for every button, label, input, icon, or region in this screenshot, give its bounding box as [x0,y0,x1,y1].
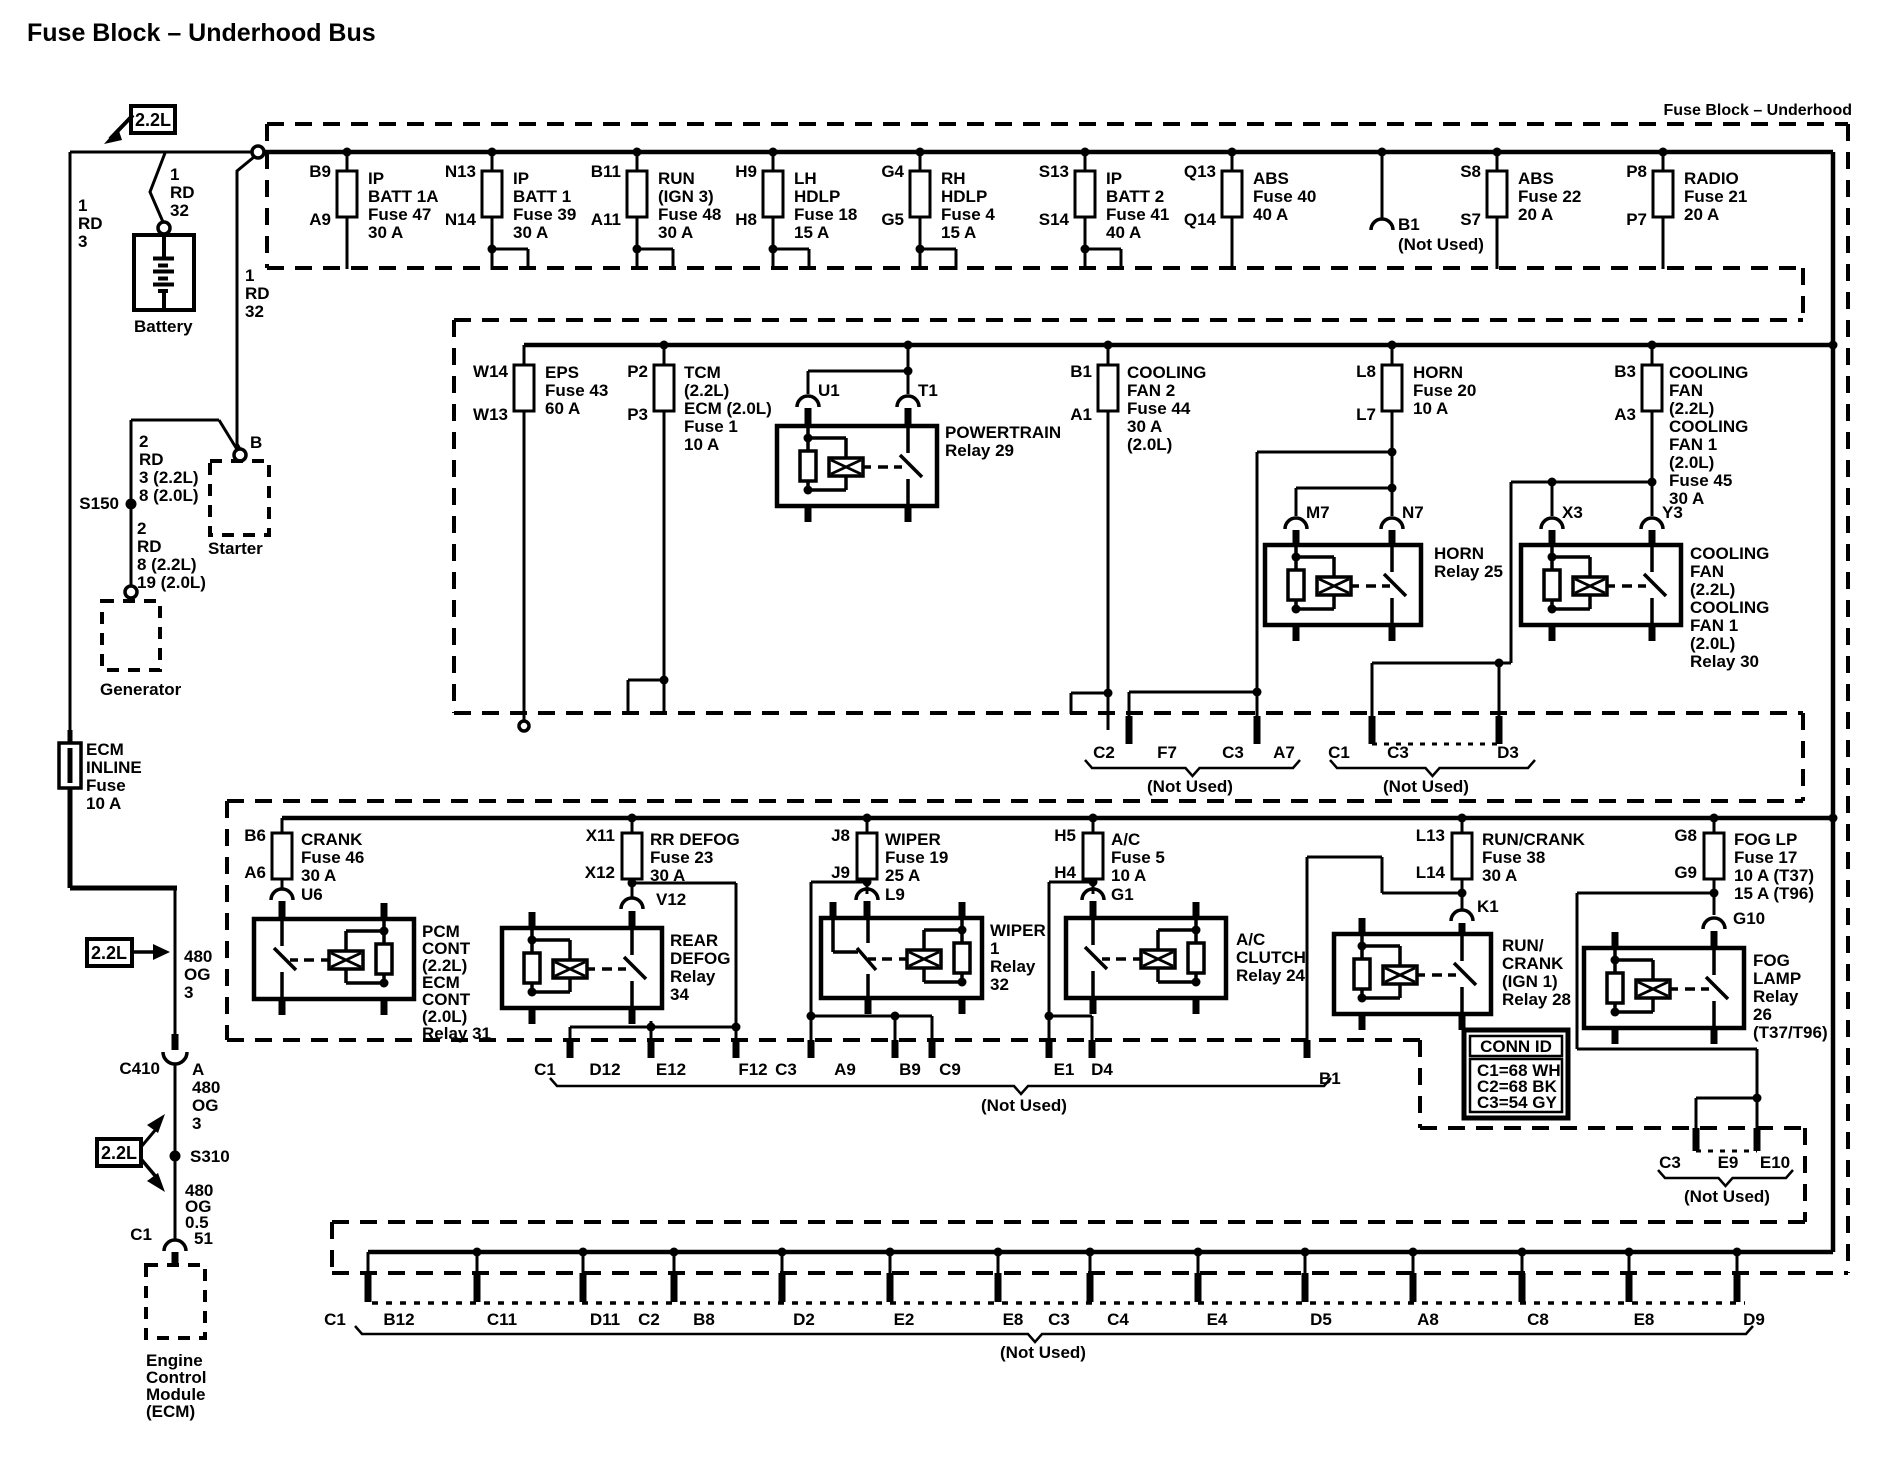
svg-text:K1: K1 [1477,897,1499,916]
svg-text:1: 1 [170,165,179,184]
svg-text:BATT 1A: BATT 1A [368,187,439,206]
svg-text:Relay: Relay [670,967,716,986]
svg-text:(2.0L): (2.0L) [1669,453,1714,472]
svg-text:X12: X12 [585,863,615,882]
svg-text:S150: S150 [79,494,119,513]
svg-text:Fuse 39: Fuse 39 [513,205,576,224]
svg-text:(Not Used): (Not Used) [1147,777,1233,796]
svg-text:G8: G8 [1674,826,1697,845]
svg-text:30 A: 30 A [301,866,336,885]
svg-text:EPS: EPS [545,363,579,382]
svg-text:C3: C3 [1222,743,1244,762]
svg-text:C8: C8 [1527,1310,1549,1329]
svg-text:10 A: 10 A [1111,866,1146,885]
svg-text:ABS: ABS [1518,169,1554,188]
svg-text:RUN/: RUN/ [1502,936,1544,955]
svg-text:A: A [192,1060,204,1079]
svg-text:L7: L7 [1356,405,1376,424]
svg-text:(2.2L): (2.2L) [684,381,729,400]
svg-text:3: 3 [192,1114,201,1133]
svg-text:COOLING: COOLING [1127,363,1206,382]
svg-text:DEFOG: DEFOG [670,949,730,968]
svg-text:C3: C3 [1387,743,1409,762]
svg-text:Relay: Relay [990,957,1036,976]
svg-text:M7: M7 [1306,503,1330,522]
svg-text:H4: H4 [1054,863,1076,882]
svg-text:G9: G9 [1674,863,1697,882]
svg-text:B9: B9 [899,1060,921,1079]
svg-text:Fuse 18: Fuse 18 [794,205,857,224]
svg-text:COOLING: COOLING [1669,417,1748,436]
svg-text:Fuse: Fuse [86,776,126,795]
svg-text:(Not Used): (Not Used) [1398,235,1484,254]
svg-text:D5: D5 [1310,1310,1332,1329]
svg-text:20 A: 20 A [1684,205,1719,224]
svg-text:E2: E2 [894,1310,915,1329]
svg-text:Relay 25: Relay 25 [1434,562,1503,581]
svg-text:Fuse Block – Underhood Bus: Fuse Block – Underhood Bus [27,19,376,47]
svg-text:2.2L: 2.2L [101,1143,137,1163]
svg-text:30 A: 30 A [513,223,548,242]
svg-text:8 (2.2L): 8 (2.2L) [137,555,197,574]
svg-text:3: 3 [184,983,193,1002]
svg-text:Relay 31: Relay 31 [422,1024,491,1043]
svg-text:CRANK: CRANK [1502,954,1564,973]
svg-text:REAR: REAR [670,931,718,950]
svg-text:10 A: 10 A [684,435,719,454]
svg-text:FAN 1: FAN 1 [1669,435,1717,454]
svg-text:HDLP: HDLP [941,187,987,206]
svg-text:X3: X3 [1562,503,1583,522]
svg-text:RD: RD [139,450,164,469]
svg-text:30 A: 30 A [368,223,403,242]
svg-text:B: B [250,433,262,452]
svg-text:HDLP: HDLP [794,187,840,206]
svg-text:(ECM): (ECM) [146,1402,195,1421]
svg-text:10 A: 10 A [1413,399,1448,418]
svg-text:BATT 2: BATT 2 [1106,187,1164,206]
svg-text:Relay 29: Relay 29 [945,441,1014,460]
svg-text:2.2L: 2.2L [135,110,171,130]
svg-text:19 (2.0L): 19 (2.0L) [137,573,206,592]
svg-text:60 A: 60 A [545,399,580,418]
svg-text:A/C: A/C [1111,830,1140,849]
svg-text:ECM: ECM [86,740,124,759]
svg-text:A8: A8 [1417,1310,1439,1329]
svg-text:480: 480 [192,1078,220,1097]
svg-text:(Not Used): (Not Used) [981,1096,1067,1115]
svg-text:COOLING: COOLING [1669,363,1748,382]
svg-text:A6: A6 [244,863,266,882]
svg-text:RD: RD [170,183,195,202]
svg-text:C3: C3 [775,1060,797,1079]
svg-text:3 (2.2L): 3 (2.2L) [139,468,199,487]
svg-text:Generator: Generator [100,680,182,699]
svg-text:FAN: FAN [1690,562,1724,581]
svg-text:IP: IP [513,169,529,188]
svg-text:L8: L8 [1356,362,1376,381]
svg-text:32: 32 [245,302,264,321]
svg-text:(Not Used): (Not Used) [1000,1343,1086,1362]
svg-text:(T37/T96): (T37/T96) [1753,1023,1828,1042]
svg-text:P2: P2 [627,362,648,381]
svg-text:(2.0L): (2.0L) [1127,435,1172,454]
svg-text:FAN 2: FAN 2 [1127,381,1175,400]
svg-text:30 A: 30 A [1127,417,1162,436]
svg-text:C1: C1 [534,1060,556,1079]
svg-text:(IGN 3): (IGN 3) [658,187,714,206]
svg-text:L9: L9 [885,885,905,904]
svg-text:Y3: Y3 [1662,503,1683,522]
svg-text:A9: A9 [309,210,331,229]
svg-text:S13: S13 [1039,162,1069,181]
svg-text:B8: B8 [693,1310,715,1329]
svg-text:Q13: Q13 [1184,162,1216,181]
svg-text:C1: C1 [324,1310,346,1329]
svg-text:N14: N14 [445,210,477,229]
svg-text:480: 480 [184,947,212,966]
svg-text:POWERTRAIN: POWERTRAIN [945,423,1061,442]
svg-text:10 A (T37): 10 A (T37) [1734,866,1814,885]
svg-text:IP: IP [1106,169,1122,188]
svg-text:Fuse 40: Fuse 40 [1253,187,1316,206]
svg-text:(2.2L): (2.2L) [1690,580,1735,599]
svg-text:1: 1 [245,266,254,285]
svg-text:RD: RD [137,537,162,556]
svg-text:C3=54 GY: C3=54 GY [1477,1093,1558,1112]
svg-text:RH: RH [941,169,966,188]
svg-text:RD: RD [78,214,103,233]
svg-text:C410: C410 [119,1059,160,1078]
svg-text:F7: F7 [1157,743,1177,762]
svg-text:W13: W13 [473,405,508,424]
svg-text:S8: S8 [1460,162,1481,181]
svg-text:ABS: ABS [1253,169,1289,188]
svg-text:C11: C11 [487,1310,517,1329]
svg-text:A9: A9 [834,1060,856,1079]
svg-text:S14: S14 [1039,210,1070,229]
svg-text:H8: H8 [735,210,757,229]
svg-text:Relay 30: Relay 30 [1690,652,1759,671]
svg-text:E1: E1 [1054,1060,1075,1079]
svg-text:C3: C3 [1048,1310,1070,1329]
svg-text:RUN: RUN [658,169,695,188]
svg-text:40 A: 40 A [1253,205,1288,224]
svg-text:Fuse 23: Fuse 23 [650,848,713,867]
svg-text:RD: RD [245,284,270,303]
svg-text:30 A: 30 A [1482,866,1517,885]
svg-text:FOG LP: FOG LP [1734,830,1797,849]
svg-text:HORN: HORN [1413,363,1463,382]
svg-text:WIPER: WIPER [885,830,941,849]
svg-text:RUN/CRANK: RUN/CRANK [1482,830,1586,849]
svg-text:E4: E4 [1207,1310,1228,1329]
svg-text:Fuse 38: Fuse 38 [1482,848,1545,867]
svg-text:15 A: 15 A [794,223,829,242]
svg-text:(Not Used): (Not Used) [1684,1187,1770,1206]
svg-text:25 A: 25 A [885,866,920,885]
svg-text:Fuse 45: Fuse 45 [1669,471,1732,490]
svg-text:P7: P7 [1626,210,1647,229]
svg-text:J9: J9 [831,863,850,882]
svg-text:G4: G4 [881,162,904,181]
svg-text:H9: H9 [735,162,757,181]
svg-text:HORN: HORN [1434,544,1484,563]
svg-text:15 A: 15 A [941,223,976,242]
svg-text:CRANK: CRANK [301,830,363,849]
svg-text:E9: E9 [1718,1153,1739,1172]
svg-text:L13: L13 [1416,826,1445,845]
svg-text:10 A: 10 A [86,794,121,813]
svg-text:3: 3 [78,232,87,251]
svg-text:U6: U6 [301,885,323,904]
svg-text:B12: B12 [383,1310,414,1329]
svg-text:B3: B3 [1614,362,1636,381]
svg-text:32: 32 [170,201,189,220]
svg-text:(2.0L): (2.0L) [1690,634,1735,653]
svg-text:B6: B6 [244,826,266,845]
svg-text:B1: B1 [1070,362,1092,381]
svg-text:C1: C1 [130,1225,152,1244]
svg-text:E8: E8 [1003,1310,1024,1329]
svg-text:B1: B1 [1319,1069,1341,1088]
svg-text:RADIO: RADIO [1684,169,1739,188]
svg-text:Q14: Q14 [1184,210,1217,229]
svg-text:Fuse 21: Fuse 21 [1684,187,1747,206]
svg-text:1: 1 [990,939,999,958]
svg-text:CLUTCH: CLUTCH [1236,948,1306,967]
svg-text:S7: S7 [1460,210,1481,229]
svg-text:Relay 28: Relay 28 [1502,990,1571,1009]
svg-text:G10: G10 [1733,909,1765,928]
svg-text:Fuse 46: Fuse 46 [301,848,364,867]
svg-text:J8: J8 [831,826,850,845]
svg-text:CONN ID: CONN ID [1480,1037,1552,1056]
svg-text:30 A: 30 A [658,223,693,242]
svg-text:Fuse 20: Fuse 20 [1413,381,1476,400]
svg-text:Fuse 47: Fuse 47 [368,205,431,224]
svg-text:2.2L: 2.2L [91,943,127,963]
svg-text:FAN 1: FAN 1 [1690,616,1738,635]
svg-text:OG: OG [192,1096,218,1115]
svg-text:E8: E8 [1634,1310,1655,1329]
svg-text:P8: P8 [1626,162,1647,181]
svg-text:P3: P3 [627,405,648,424]
svg-text:Fuse 22: Fuse 22 [1518,187,1581,206]
svg-text:Fuse Block – Underhood: Fuse Block – Underhood [1664,102,1852,119]
svg-text:2: 2 [139,432,148,451]
svg-text:LAMP: LAMP [1753,969,1801,988]
svg-text:G1: G1 [1111,885,1134,904]
svg-text:F12: F12 [738,1060,767,1079]
svg-text:V12: V12 [656,890,686,909]
svg-text:ECM (2.0L): ECM (2.0L) [684,399,772,418]
svg-text:Fuse 4: Fuse 4 [941,205,995,224]
svg-text:LH: LH [794,169,817,188]
svg-text:40 A: 40 A [1106,223,1141,242]
svg-text:C4: C4 [1107,1310,1129,1329]
svg-text:Fuse 17: Fuse 17 [1734,848,1797,867]
svg-text:Starter: Starter [208,539,263,558]
svg-text:N13: N13 [445,162,476,181]
svg-text:D12: D12 [589,1060,620,1079]
svg-text:D4: D4 [1091,1060,1113,1079]
svg-text:32: 32 [990,975,1009,994]
svg-text:Fuse 43: Fuse 43 [545,381,608,400]
svg-text:TCM: TCM [684,363,721,382]
svg-text:S310: S310 [190,1147,230,1166]
svg-text:A3: A3 [1614,405,1636,424]
svg-text:D2: D2 [793,1310,815,1329]
svg-text:COOLING: COOLING [1690,598,1769,617]
svg-text:E12: E12 [656,1060,686,1079]
svg-text:51: 51 [194,1229,213,1248]
svg-text:8 (2.0L): 8 (2.0L) [139,486,199,505]
svg-text:A/C: A/C [1236,930,1265,949]
svg-text:RR DEFOG: RR DEFOG [650,830,740,849]
svg-text:INLINE: INLINE [86,758,142,777]
svg-text:FAN: FAN [1669,381,1703,400]
svg-text:D9: D9 [1743,1310,1765,1329]
svg-text:OG: OG [184,965,210,984]
svg-text:Fuse 48: Fuse 48 [658,205,721,224]
svg-text:26: 26 [1753,1005,1772,1024]
svg-text:FOG: FOG [1753,951,1790,970]
svg-text:1: 1 [78,196,87,215]
svg-text:U1: U1 [818,381,840,400]
svg-text:X11: X11 [586,826,615,845]
svg-text:34: 34 [670,985,689,1004]
svg-text:E10: E10 [1760,1153,1790,1172]
svg-text:C2: C2 [638,1310,660,1329]
svg-text:Battery: Battery [134,317,193,336]
svg-text:B1: B1 [1398,215,1420,234]
svg-text:W14: W14 [473,362,509,381]
svg-text:B11: B11 [591,162,621,181]
svg-text:A11: A11 [591,210,621,229]
svg-text:(Not Used): (Not Used) [1383,777,1469,796]
svg-text:G5: G5 [881,210,904,229]
svg-text:COOLING: COOLING [1690,544,1769,563]
svg-text:BATT 1: BATT 1 [513,187,571,206]
svg-text:WIPER: WIPER [990,921,1046,940]
svg-text:A1: A1 [1070,405,1092,424]
svg-text:Relay 24: Relay 24 [1236,966,1306,985]
svg-text:Fuse 5: Fuse 5 [1111,848,1165,867]
svg-text:C1: C1 [1328,743,1350,762]
svg-text:C3: C3 [1659,1153,1681,1172]
svg-text:N7: N7 [1402,503,1424,522]
svg-text:Fuse 19: Fuse 19 [885,848,948,867]
svg-text:(IGN 1): (IGN 1) [1502,972,1558,991]
svg-text:Fuse 44: Fuse 44 [1127,399,1191,418]
svg-text:L14: L14 [1416,863,1446,882]
svg-text:Relay: Relay [1753,987,1799,1006]
svg-text:C9: C9 [939,1060,961,1079]
svg-text:D11: D11 [590,1310,620,1329]
svg-text:A7: A7 [1273,743,1295,762]
svg-text:20 A: 20 A [1518,205,1553,224]
svg-text:15 A (T96): 15 A (T96) [1734,884,1814,903]
svg-text:B9: B9 [309,162,331,181]
svg-text:2: 2 [137,519,146,538]
svg-text:C2: C2 [1093,743,1115,762]
svg-text:Fuse 1: Fuse 1 [684,417,738,436]
svg-text:IP: IP [368,169,384,188]
svg-text:Fuse 41: Fuse 41 [1106,205,1169,224]
svg-text:T1: T1 [918,381,938,400]
svg-text:(2.2L): (2.2L) [1669,399,1714,418]
svg-text:D3: D3 [1497,743,1519,762]
svg-text:H5: H5 [1054,826,1076,845]
